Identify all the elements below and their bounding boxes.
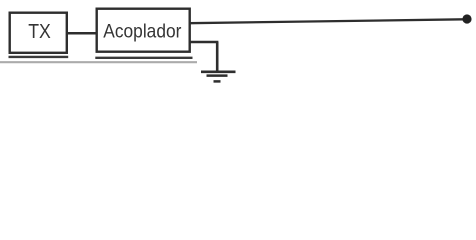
- wire Acoplador to ground: [189, 42, 219, 71]
- shadow line under TX box: [9, 56, 69, 58]
- transmitter block TX: [10, 13, 67, 53]
- antenna wire: [189, 19, 464, 23]
- antenna end node: [462, 14, 471, 23]
- label Acoplador: [103, 20, 181, 42]
- coupler block Acoplador: [97, 9, 190, 52]
- wire TX to Acoplador: [67, 32, 98, 35]
- shadow line under Acoplador box: [95, 57, 192, 59]
- faint scan shadow line across bottom: [0, 61, 197, 63]
- ground: [201, 72, 236, 82]
- svg-text:TX: TX: [28, 21, 51, 43]
- label TX: [28, 21, 51, 43]
- svg-text:Acoplador: Acoplador: [103, 20, 181, 42]
